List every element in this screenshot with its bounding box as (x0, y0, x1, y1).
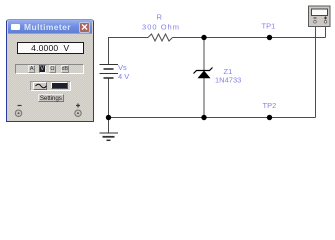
svg-text:Vs: Vs (118, 63, 127, 72)
svg-text:4 V: 4 V (118, 72, 129, 81)
svg-text:TP2: TP2 (263, 101, 277, 110)
svg-text:TP1: TP1 (262, 22, 276, 31)
svg-text:R: R (157, 13, 163, 22)
svg-text:1N4733: 1N4733 (215, 76, 241, 85)
svg-text:300 Ohm: 300 Ohm (142, 23, 179, 32)
